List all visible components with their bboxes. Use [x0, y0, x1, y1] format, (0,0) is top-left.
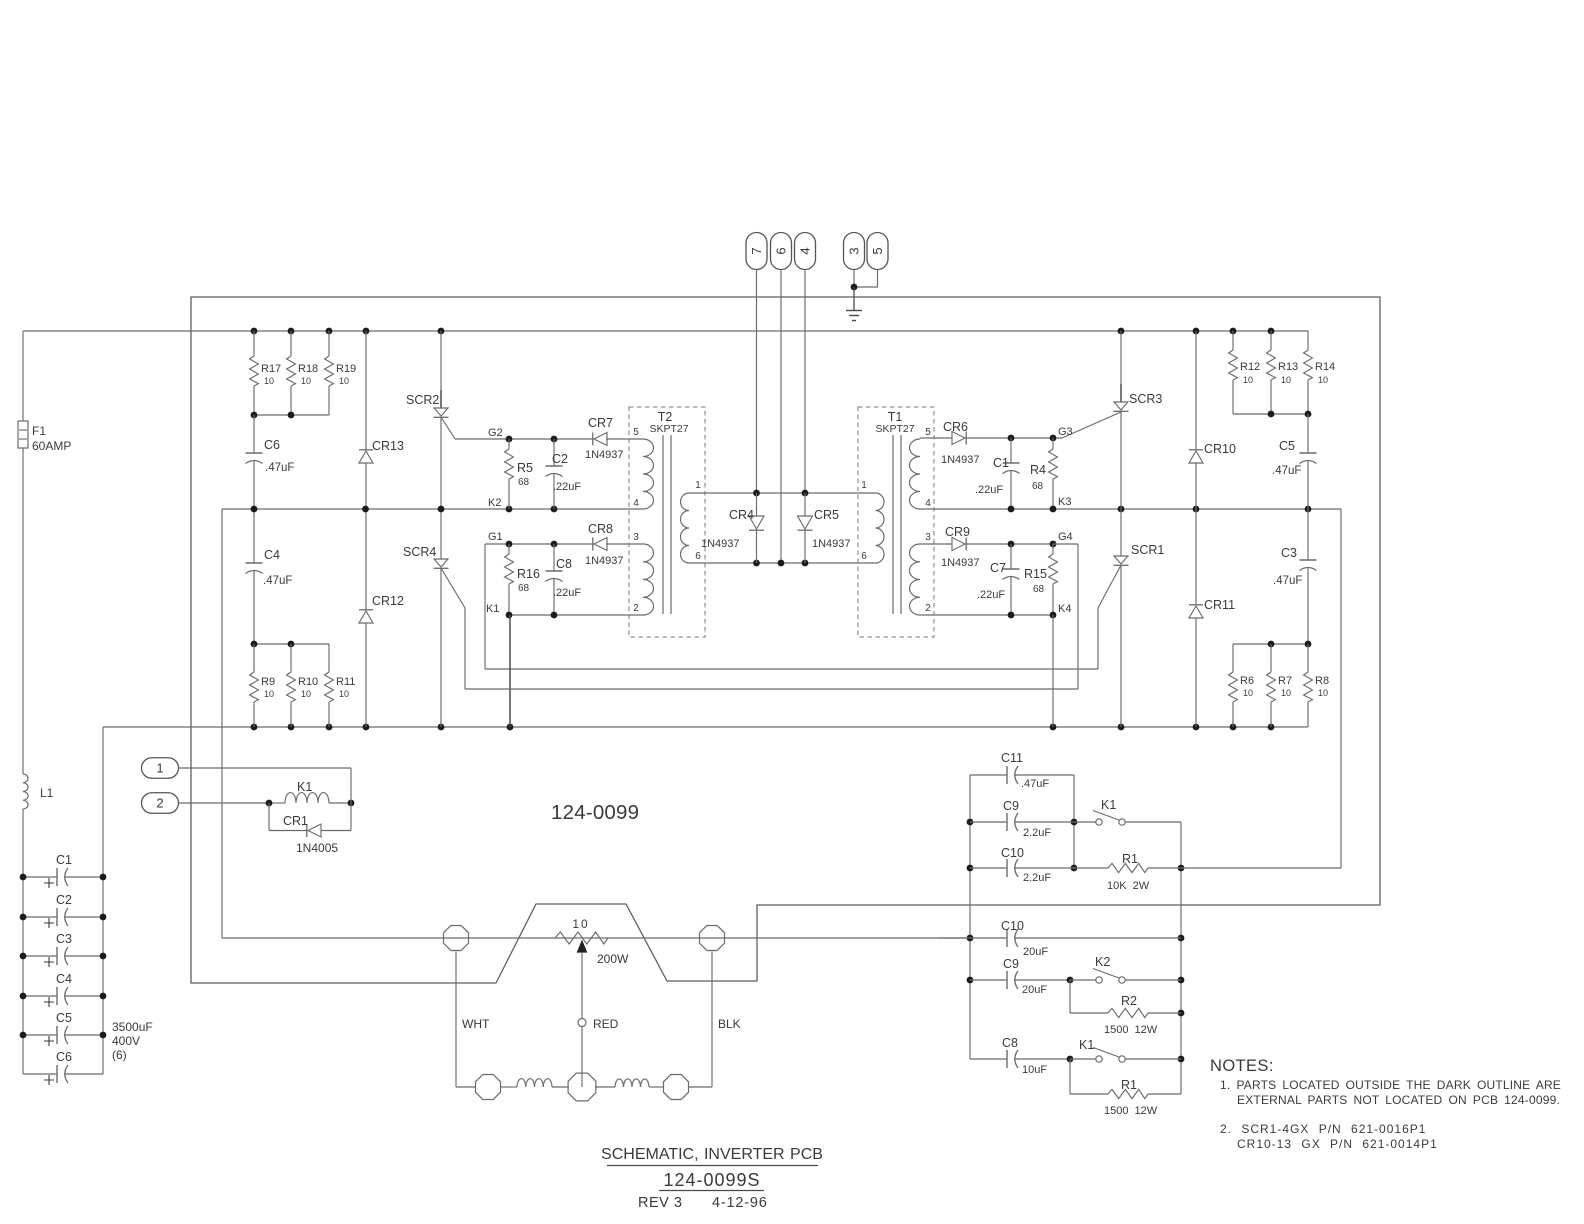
svg-text:10: 10	[1318, 688, 1328, 698]
notes heading	[1210, 1057, 1274, 1075]
svg-text:200W: 200W	[597, 952, 629, 966]
wire K4 to bottom rail	[1052, 615, 1054, 727]
wire pot element row	[443, 937, 970, 939]
pot terminal octagon right	[700, 926, 725, 951]
svg-text:3: 3	[925, 532, 931, 543]
svg-text:R1: R1	[1122, 852, 1138, 866]
svg-text:124-0099: 124-0099	[551, 801, 639, 824]
diode CR13	[359, 331, 404, 509]
svg-text:C7: C7	[990, 561, 1006, 575]
svg-text:2: 2	[633, 603, 639, 614]
svg-text:10K 2W: 10K 2W	[1107, 880, 1150, 892]
wire K2 rail	[222, 506, 643, 513]
svg-text:.22uF: .22uF	[553, 587, 581, 599]
svg-text:CR9: CR9	[945, 525, 970, 539]
svg-text:R12: R12	[1240, 361, 1260, 373]
svg-text:CR10-13 GX P/N 621-0014P1: CR10-13 GX P/N 621-0014P1	[1237, 1137, 1438, 1151]
svg-text:1: 1	[156, 761, 163, 776]
fuse F1 60AMP	[18, 421, 71, 453]
svg-text:C4: C4	[264, 548, 280, 562]
svg-text:3: 3	[633, 532, 639, 543]
capacitor C4 .47uF	[246, 509, 293, 644]
capacitor C11 .47uF	[970, 751, 1074, 790]
wire link pin6-pin6	[689, 560, 876, 567]
capacitor C6 (filter bank)	[23, 1050, 103, 1085]
pot bottom octagon 3	[664, 1075, 689, 1100]
title 124-0099S	[659, 1170, 764, 1191]
outer dark outline of PCB 124-0099	[191, 297, 1380, 983]
svg-text:400V: 400V	[112, 1034, 140, 1048]
wire K1 to R1	[1069, 1059, 1071, 1094]
svg-text:R18: R18	[298, 363, 318, 375]
wire link pin1-pin1	[689, 490, 876, 497]
wire K4 row	[920, 612, 1056, 619]
svg-text:CR10: CR10	[1204, 442, 1236, 456]
T2 winding 3-2	[633, 532, 653, 615]
svg-text:G2: G2	[488, 427, 503, 439]
capacitor C10 20uF	[938, 919, 1181, 958]
resistor R6 10	[1229, 644, 1254, 727]
node top rail junctions	[251, 328, 1275, 335]
resistor R9 10	[250, 644, 275, 727]
capacitor C2 .22uF	[546, 439, 582, 509]
capacitor C5 .47uF	[1272, 414, 1317, 509]
svg-text:C6: C6	[264, 438, 280, 452]
wire R9-R11 top	[251, 641, 329, 648]
svg-text:CR7: CR7	[588, 416, 613, 430]
wire G3 row	[920, 412, 1121, 441]
T1 core	[893, 435, 901, 614]
label G3 K3	[1058, 426, 1073, 508]
svg-text:(6): (6)	[112, 1048, 127, 1062]
svg-text:R4: R4	[1030, 463, 1046, 477]
svg-text:C3: C3	[1281, 546, 1297, 560]
wire K3 rail	[920, 506, 1341, 513]
thyristor SCR1	[1098, 509, 1164, 727]
svg-text:1: 1	[695, 480, 701, 491]
svg-text:R17: R17	[261, 363, 281, 375]
T2 core	[663, 435, 671, 614]
wire R17-R19 bottom	[251, 412, 329, 419]
thyristor SCR4	[403, 509, 465, 727]
svg-text:REV 3: REV 3	[638, 1195, 682, 1211]
wire K1 row	[506, 612, 643, 619]
resistor R8 10	[1304, 644, 1329, 727]
svg-text:RED: RED	[593, 1017, 619, 1031]
resistor R7 10	[1267, 644, 1292, 727]
wire G1 row	[485, 541, 643, 548]
svg-text:1: 1	[861, 480, 867, 491]
svg-text:K1: K1	[1101, 798, 1116, 812]
svg-text:K1: K1	[486, 603, 499, 615]
capacitor C3 .47uF	[1273, 509, 1317, 644]
resistor R10 10	[287, 644, 319, 727]
svg-text:K2: K2	[1095, 955, 1110, 969]
pot terminal octagon left	[444, 926, 469, 951]
svg-text:C5: C5	[56, 1011, 72, 1025]
svg-text:4: 4	[633, 498, 639, 509]
svg-text:CR12: CR12	[372, 594, 404, 608]
wire G1 route to SCR1 gate bus	[485, 544, 1098, 669]
svg-text:10: 10	[301, 376, 311, 386]
svg-text:5: 5	[633, 427, 639, 438]
resistor R17 10	[250, 331, 282, 415]
wire G2 row	[455, 436, 643, 443]
resistor R4 68	[1030, 438, 1057, 509]
svg-text:1N4937: 1N4937	[701, 538, 740, 550]
svg-text:CR6: CR6	[943, 420, 968, 434]
resistor R5 68	[505, 439, 533, 509]
ground	[846, 287, 862, 321]
svg-text:C8: C8	[556, 557, 572, 571]
svg-text:R9: R9	[261, 676, 275, 688]
svg-text:.22uF: .22uF	[975, 484, 1003, 496]
svg-text:R13: R13	[1278, 361, 1298, 373]
svg-text:10: 10	[572, 917, 589, 931]
choke coil right	[615, 1079, 649, 1087]
svg-text:R14: R14	[1315, 361, 1335, 373]
svg-text:.47uF: .47uF	[1272, 465, 1301, 477]
svg-text:C1: C1	[993, 456, 1009, 470]
connector pin 7	[746, 233, 767, 494]
svg-text:2. SCR1-4GX P/N 621-0016P1: 2. SCR1-4GX P/N 621-0016P1	[1220, 1122, 1426, 1136]
svg-text:K2: K2	[488, 497, 501, 509]
svg-text:10: 10	[264, 376, 274, 386]
wire R12-R14 bottom	[1233, 411, 1311, 418]
svg-text:K3: K3	[1058, 496, 1071, 508]
wire R6-R8 top	[1233, 641, 1311, 648]
wire K2 to R2	[1069, 980, 1071, 1013]
wire snubber mid rail upper	[1071, 775, 1078, 871]
svg-text:SKPT27: SKPT27	[649, 423, 688, 435]
svg-text:.47uF: .47uF	[265, 462, 294, 474]
diode CR11	[1189, 509, 1235, 727]
transformer T2 SKPT27 box	[629, 407, 705, 637]
resistor R19 10	[325, 331, 357, 415]
svg-text:G1: G1	[488, 531, 503, 543]
wire snubber right rail	[1178, 822, 1185, 1094]
wire cap bank right rail	[102, 727, 104, 1074]
svg-text:1N4937: 1N4937	[941, 557, 980, 569]
T2 winding 1-6	[681, 480, 702, 563]
switch K1 bottom	[1070, 1038, 1181, 1062]
svg-text:2.2uF: 2.2uF	[1023, 827, 1051, 839]
connector pin 6	[771, 233, 792, 564]
svg-text:.47uF: .47uF	[1021, 778, 1049, 790]
svg-text:CR11: CR11	[1204, 598, 1235, 612]
svg-text:C2: C2	[552, 452, 568, 466]
svg-text:R11: R11	[336, 676, 355, 688]
svg-text:1N4937: 1N4937	[941, 454, 980, 466]
svg-text:C2: C2	[56, 893, 72, 907]
potentiometer 10 200W element	[555, 917, 629, 966]
capacitor C8 10uF	[970, 1036, 1073, 1076]
svg-text:3: 3	[847, 247, 862, 254]
connector pin 1	[142, 758, 352, 779]
svg-text:.47uF: .47uF	[1273, 575, 1302, 587]
wire cap bank left rail	[22, 877, 24, 1074]
svg-text:R2: R2	[1121, 994, 1137, 1008]
inductor L1	[23, 774, 54, 809]
T1 winding 3-2	[910, 532, 932, 615]
svg-text:10: 10	[339, 689, 349, 699]
svg-text:SCR3: SCR3	[1129, 392, 1162, 406]
svg-text:20uF: 20uF	[1022, 984, 1047, 996]
svg-text:T2: T2	[658, 410, 673, 424]
capacitor C9 2.2uF	[970, 799, 1074, 839]
svg-text:10uF: 10uF	[1022, 1064, 1047, 1076]
svg-text:124-0099S: 124-0099S	[663, 1170, 760, 1190]
svg-text:R7: R7	[1278, 675, 1292, 687]
connector pin 4	[795, 233, 816, 494]
svg-text:R15: R15	[1024, 567, 1047, 581]
svg-text:R8: R8	[1315, 675, 1329, 687]
transformer T1 SKPT27 box	[858, 407, 934, 637]
pot bottom row	[456, 1086, 712, 1088]
T1 winding 5-4	[910, 427, 932, 509]
svg-text:CR8: CR8	[588, 522, 613, 536]
capacitor C4 (filter bank)	[23, 972, 103, 1007]
capacitor C5 (filter bank)	[23, 1011, 103, 1046]
diode CR1 1N4005	[269, 803, 351, 855]
svg-text:2: 2	[156, 796, 163, 811]
wire SCR4 gate to G4 bus	[464, 608, 466, 689]
svg-text:R6: R6	[1240, 675, 1254, 687]
svg-text:G4: G4	[1058, 531, 1073, 543]
svg-text:10: 10	[1318, 375, 1328, 385]
svg-text:C9: C9	[1003, 799, 1019, 813]
diode CR6 1N4937	[941, 420, 980, 466]
wire SCR1 gate to G1 bus	[1097, 608, 1099, 669]
svg-text:CR1: CR1	[283, 814, 308, 828]
resistor R14 10	[1304, 331, 1336, 414]
svg-text:C11: C11	[1001, 751, 1023, 765]
svg-text:CR13: CR13	[372, 439, 404, 453]
svg-text:6: 6	[695, 551, 701, 562]
svg-text:10: 10	[301, 689, 311, 699]
svg-text:4-12-96: 4-12-96	[712, 1195, 768, 1211]
thyristor SCR2	[406, 331, 455, 509]
svg-text:F1: F1	[32, 424, 46, 438]
svg-text:10: 10	[1243, 375, 1253, 385]
capacitor C10 2.2uF	[970, 846, 1074, 884]
capacitor C2 (filter bank)	[23, 893, 103, 928]
wire snubber left rail	[967, 775, 974, 1059]
svg-text:SCR4: SCR4	[403, 545, 436, 559]
connector pin 2	[142, 793, 270, 814]
svg-text:C6: C6	[56, 1050, 72, 1064]
svg-text:C10: C10	[1001, 846, 1024, 860]
svg-text:C1: C1	[56, 853, 72, 867]
resistor R18 10	[287, 331, 319, 415]
svg-text:R10: R10	[298, 676, 318, 688]
resistor R1 1500 12W	[1070, 1078, 1181, 1117]
capacitor C7 .22uF	[977, 544, 1020, 615]
svg-text:5: 5	[870, 247, 885, 254]
switch K2	[1070, 955, 1181, 983]
wire BLK	[712, 952, 741, 1088]
svg-text:R19: R19	[336, 363, 356, 375]
resistor R13 10	[1267, 331, 1299, 414]
svg-text:SKPT27: SKPT27	[875, 423, 914, 435]
capacitor C9 20uF	[970, 957, 1073, 996]
svg-text:WHT: WHT	[462, 1017, 490, 1031]
capacitor C1 (filter bank)	[23, 853, 103, 888]
wire L1 to cap bank	[22, 809, 24, 877]
svg-text:10: 10	[1281, 375, 1291, 385]
svg-text:4: 4	[798, 247, 813, 254]
diode CR5 1N4937	[798, 493, 851, 563]
svg-text:10: 10	[264, 689, 274, 699]
wire WHT	[456, 952, 490, 1088]
svg-text:EXTERNAL PARTS NOT LOCATED ON: EXTERNAL PARTS NOT LOCATED ON PCB 124-00…	[1237, 1093, 1560, 1107]
svg-text:BLK: BLK	[718, 1017, 741, 1031]
thyristor SCR3	[1114, 331, 1163, 509]
node bottom rail junctions	[251, 724, 1275, 731]
relay coil K1	[266, 768, 355, 831]
svg-text:R5: R5	[517, 461, 533, 475]
svg-text:68: 68	[518, 583, 530, 594]
svg-text:2: 2	[925, 603, 931, 614]
svg-text:R16: R16	[517, 567, 540, 581]
svg-text:1. PARTS LOCATED OUTSIDE THE: 1. PARTS LOCATED OUTSIDE THE DARK OUTLIN…	[1220, 1078, 1561, 1092]
svg-text:C3: C3	[56, 932, 72, 946]
svg-text:.22uF: .22uF	[553, 481, 581, 493]
svg-text:60AMP: 60AMP	[32, 439, 71, 453]
svg-text:1N4937: 1N4937	[585, 555, 624, 567]
svg-text:C4: C4	[56, 972, 72, 986]
wiper circle RED	[578, 1017, 619, 1087]
resistor R16 68	[505, 544, 540, 615]
svg-text:68: 68	[1033, 584, 1045, 595]
T2 winding 5-4	[633, 427, 653, 509]
svg-text:1N4005: 1N4005	[296, 841, 338, 855]
title SCHEMATIC, INVERTER PCB	[601, 1146, 823, 1166]
svg-text:NOTES:: NOTES:	[1210, 1057, 1274, 1075]
label G1 K1	[486, 531, 503, 615]
diode CR8 1N4937	[585, 522, 624, 567]
label G4 K4	[1058, 531, 1073, 615]
diode CR10	[1189, 331, 1236, 509]
junction pins 3-5	[851, 284, 858, 291]
label 124-0099	[551, 801, 639, 824]
svg-text:G3: G3	[1058, 426, 1073, 438]
capacitor C1 .22uF	[975, 438, 1020, 509]
svg-text:10: 10	[339, 376, 349, 386]
svg-text:K4: K4	[1058, 603, 1071, 615]
svg-text:K1: K1	[1079, 1038, 1094, 1052]
svg-text:C8: C8	[1002, 1036, 1018, 1050]
wire G4 row	[920, 541, 1056, 548]
connector pin 5	[854, 233, 888, 288]
choke coil left	[517, 1079, 552, 1087]
wire left feed vertical	[22, 331, 24, 774]
svg-text:1500 12W: 1500 12W	[1104, 1024, 1158, 1036]
svg-text:1N4937: 1N4937	[585, 449, 624, 461]
wire K1 to bottom rail	[509, 615, 511, 727]
resistor R15 68	[1024, 544, 1057, 615]
pot bottom octagon 2	[568, 1073, 596, 1101]
svg-text:68: 68	[518, 477, 530, 488]
diode CR9 1N4937	[941, 525, 980, 569]
svg-text:6: 6	[774, 247, 789, 254]
svg-text:5: 5	[925, 427, 931, 438]
resistor R2 1500 12W	[1070, 994, 1181, 1036]
connector pin 3	[844, 233, 865, 288]
capacitor C3 (filter bank)	[23, 932, 103, 967]
node cap bank junctions	[20, 874, 107, 1039]
svg-text:SCR2: SCR2	[406, 393, 439, 407]
resistor R12 10	[1229, 331, 1261, 414]
svg-text:10: 10	[1281, 688, 1291, 698]
svg-text:R1: R1	[1121, 1078, 1137, 1092]
note 2	[1220, 1122, 1438, 1151]
svg-text:C5: C5	[1279, 439, 1295, 453]
label 3500uF 400V (6)	[112, 1020, 153, 1062]
svg-text:1500 12W: 1500 12W	[1104, 1105, 1158, 1117]
svg-text:6: 6	[861, 551, 867, 562]
resistor R1 10K 2W	[1074, 852, 1341, 892]
diode CR12	[359, 509, 404, 727]
switch K1 top	[1074, 798, 1181, 825]
resistor R11 10	[325, 644, 356, 727]
svg-text:L1: L1	[40, 786, 54, 800]
wire K2 net route to pot	[222, 509, 443, 938]
svg-text:68: 68	[1032, 481, 1044, 492]
T1 winding 1-6	[861, 480, 884, 563]
wire K3 net route to R1	[1340, 509, 1342, 868]
svg-text:CR5: CR5	[814, 508, 839, 522]
svg-text:1N4937: 1N4937	[812, 538, 851, 550]
svg-text:10: 10	[1243, 688, 1253, 698]
svg-text:7: 7	[749, 247, 764, 254]
capacitor C6 .47uF	[246, 415, 295, 509]
pot bottom octagon 1	[476, 1075, 501, 1100]
svg-text:C9: C9	[1003, 957, 1019, 971]
svg-text:SCR1: SCR1	[1131, 543, 1164, 557]
svg-text:T1: T1	[888, 410, 903, 424]
wire bottom rail	[103, 726, 1308, 728]
svg-text:3500uF: 3500uF	[112, 1020, 153, 1034]
diode CR7 1N4937	[585, 416, 624, 461]
svg-text:.47uF: .47uF	[263, 575, 292, 587]
svg-text:SCHEMATIC, INVERTER PCB: SCHEMATIC, INVERTER PCB	[601, 1146, 823, 1163]
pot wiper arrow	[578, 941, 587, 1019]
capacitor C8 .22uF	[546, 544, 582, 615]
wire G4 route to SCR4 gate bus	[465, 544, 1078, 689]
svg-text:2.2uF: 2.2uF	[1023, 872, 1051, 884]
svg-text:CR4: CR4	[729, 508, 754, 522]
svg-text:4: 4	[925, 498, 931, 509]
label G2 K2	[488, 427, 503, 509]
diode CR4 1N4937	[701, 493, 764, 563]
svg-text:K1: K1	[297, 780, 312, 794]
svg-text:C10: C10	[1001, 919, 1024, 933]
svg-text:20uF: 20uF	[1023, 946, 1048, 958]
wire top rail	[23, 330, 1308, 332]
title REV 3 4-12-96	[638, 1195, 768, 1211]
note 1	[1220, 1078, 1561, 1107]
svg-text:.22uF: .22uF	[977, 589, 1005, 601]
